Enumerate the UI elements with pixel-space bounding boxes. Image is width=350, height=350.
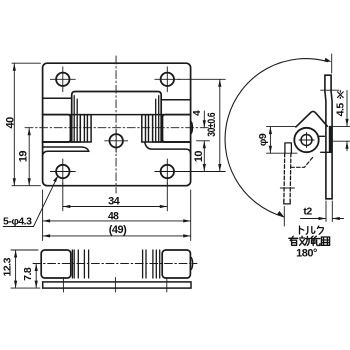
bottom view hole tick centre bbox=[114, 278, 116, 293]
arc arrow bottom bbox=[277, 211, 284, 217]
bracket peak bbox=[296, 111, 327, 126]
hinge axis centerline (horizontal dash-dot) bbox=[25, 127, 211, 129]
kou 効 bbox=[300, 236, 310, 245]
bottom view right washers bbox=[143, 250, 160, 278]
svg-text:4: 4 bbox=[192, 110, 203, 116]
right tab inner lines bbox=[156, 96, 159, 142]
barrel crosshair bbox=[299, 132, 314, 147]
dimension 4 (axis to centre hole) bbox=[197, 140, 210, 142]
svg-text:5-φ4.3: 5-φ4.3 bbox=[3, 216, 32, 228]
dimension t2 bbox=[326, 201, 332, 222]
bottom view pin bump bbox=[191, 257, 193, 270]
dimension 12.3 bbox=[11, 250, 40, 288]
left tab inner lines bbox=[74, 96, 77, 142]
phantom leaf dashed edges bbox=[284, 153, 291, 200]
dimension phi9 bbox=[267, 127, 298, 154]
knuckle bottom line left bbox=[43, 141, 81, 143]
barrel outer bbox=[294, 128, 318, 152]
hole bottom-left bbox=[56, 165, 69, 178]
left knuckle block bbox=[43, 115, 71, 142]
side leaf bar bbox=[325, 75, 332, 199]
svg-text:12.3: 12.3 bbox=[2, 257, 14, 276]
slab (plate edge view) bbox=[43, 282, 191, 288]
arc arrow top bbox=[324, 58, 331, 62]
dimension (49) bbox=[43, 235, 191, 237]
right washer stack bbox=[142, 115, 153, 142]
raised section top edge bbox=[72, 92, 162, 143]
svg-text:10: 10 bbox=[193, 151, 205, 163]
dimension 48 bbox=[43, 190, 191, 241]
plate vertical centerline (dash-dot) bbox=[115, 56, 117, 193]
phantom bracket hidden line bbox=[291, 157, 313, 167]
bottom view right block bbox=[162, 250, 190, 278]
katakana text toruku (トルク) bbox=[300, 226, 324, 234]
svg-text:30±0.6: 30±0.6 bbox=[206, 113, 218, 137]
hole top-right bbox=[161, 73, 174, 86]
lower step right bbox=[145, 142, 191, 154]
extension line at arc top bbox=[331, 54, 333, 73]
front view plate outline bbox=[43, 63, 191, 186]
hole center bbox=[110, 134, 123, 147]
knuckle bottom line right bbox=[153, 141, 191, 143]
lower step left upper line bbox=[43, 147, 89, 151]
svg-text:19: 19 bbox=[17, 151, 29, 163]
svg-text:48: 48 bbox=[108, 210, 119, 222]
i 囲 bbox=[321, 237, 329, 245]
svg-text:φ9: φ9 bbox=[257, 133, 269, 146]
dimension 7.8 bbox=[35, 264, 37, 289]
svg-text:34: 34 bbox=[108, 196, 121, 208]
barrel inner bbox=[301, 135, 312, 146]
dimension 34 bbox=[63, 183, 168, 211]
svg-text:4.5: 4.5 bbox=[335, 103, 347, 117]
bottom view hole tick left bbox=[62, 278, 64, 293]
mount plate bottom edge bbox=[321, 151, 332, 153]
leader 5-phi4.3 bbox=[3, 178, 57, 227]
torque range arc bbox=[225, 59, 328, 217]
dimension 19 bbox=[28, 128, 30, 186]
phantom leaf bottom cap bbox=[284, 201, 290, 204]
extension line at arc bottom bbox=[283, 207, 285, 227]
han 範 bbox=[311, 236, 320, 245]
svg-text:(49): (49) bbox=[109, 224, 127, 236]
svg-text:7.8: 7.8 bbox=[22, 267, 34, 281]
bottom view left washers bbox=[72, 250, 88, 278]
svg-text:40: 40 bbox=[4, 117, 16, 129]
bottom view hole tick right bbox=[166, 278, 168, 293]
hole top-left bbox=[56, 73, 69, 86]
mounting plate (thick) bbox=[329, 126, 332, 152]
upper step line left bbox=[43, 97, 72, 99]
dimension 30±0.6 bbox=[179, 79, 226, 171]
phantom tick bbox=[280, 187, 294, 189]
reference mark kome (※) next to 4.5 bbox=[337, 90, 343, 99]
svg-text:t2: t2 bbox=[303, 205, 312, 217]
leaf joggle tick bbox=[321, 89, 339, 91]
kanji text yuukou-hani (有効範囲) bbox=[289, 236, 330, 245]
yuu 有 bbox=[289, 236, 298, 245]
leaf fold edge across mid-band bbox=[43, 114, 191, 116]
svg-text:180°: 180° bbox=[296, 248, 317, 260]
phantom leaf solid cap bbox=[285, 143, 292, 154]
hole bottom-right bbox=[161, 165, 174, 178]
upper step line right bbox=[161, 99, 190, 101]
bracket bottom edge bbox=[318, 135, 325, 137]
lower step left lower line bbox=[43, 151, 89, 156]
bottom view axis centerline bbox=[33, 263, 197, 265]
pin bump on right plate edge bbox=[191, 121, 193, 133]
dimension 40 bbox=[12, 63, 41, 186]
dimension 4.5 bbox=[332, 126, 350, 141]
right knuckle block bbox=[163, 115, 191, 142]
left washer stack bbox=[80, 115, 91, 142]
bottom view left block bbox=[41, 250, 71, 278]
